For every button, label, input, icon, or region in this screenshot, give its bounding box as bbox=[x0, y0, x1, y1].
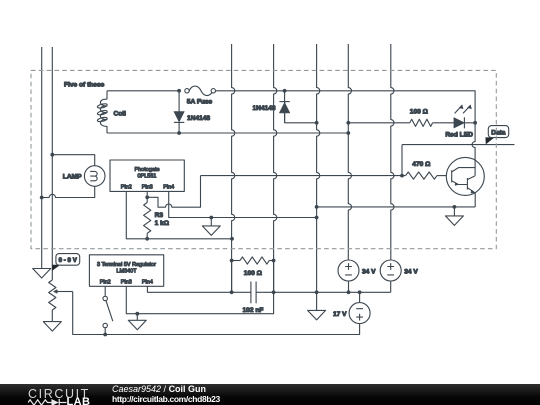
wire photogate Pin3 row to 470 ohm (y=175.6) bbox=[201, 175, 403, 177]
svg-text:Coil: Coil bbox=[114, 110, 127, 117]
switch SW1 bbox=[104, 286, 106, 296]
wire LED row left segment (D2 bottom to ground column) bbox=[285, 101, 317, 123]
dashed enclosure box bbox=[31, 70, 496, 248]
svg-text:Pin3: Pin3 bbox=[142, 185, 153, 191]
wire vertical column D (x=273.6) bbox=[274, 44, 277, 292]
svg-text:0PL551: 0PL551 bbox=[138, 174, 157, 180]
wire Data row (y=144.6) bbox=[402, 145, 515, 176]
wire vertical column A (x=41.7, lamp return / ground) bbox=[41, 47, 43, 269]
svg-text:34 V: 34 V bbox=[404, 268, 418, 275]
wire LED row (34V column to LED) bbox=[348, 122, 410, 124]
resistor 470 Ohm bbox=[402, 175, 406, 177]
ground (pot bottom) bbox=[43, 310, 61, 331]
svg-text:Data: Data bbox=[491, 129, 506, 136]
wire photogate Pin3 stub bbox=[146, 191, 148, 202]
fuse F1 5A bbox=[185, 89, 189, 93]
resistor 100 Ohm (LED) bbox=[410, 119, 433, 126]
diode D2 1N4148 bbox=[284, 91, 286, 123]
wire photogate Pin2 / R3 bottom row (y=238.8) bbox=[126, 191, 232, 238]
IC U1 Photogate 0PL551 bbox=[110, 160, 184, 191]
potentiometer R4 bbox=[49, 280, 56, 310]
svg-text:3 Terminal 5V Regulator: 3 Terminal 5V Regulator bbox=[97, 262, 156, 268]
flag Data bbox=[485, 137, 494, 144]
voltage source V1 34V bbox=[347, 259, 349, 261]
ground (emitter) bbox=[445, 207, 463, 226]
wire vertical column B (x=52.3, 0-9V supply to lamp and pot) bbox=[51, 47, 53, 280]
wire coil top / fuse row (y=90.8) bbox=[107, 90, 179, 92]
svg-text:5A Fuse: 5A Fuse bbox=[187, 98, 213, 105]
svg-text:Pin2: Pin2 bbox=[100, 279, 111, 285]
footer text bbox=[112, 385, 220, 405]
flag 0 - 9 V bbox=[52, 265, 61, 271]
svg-text:470 Ω: 470 Ω bbox=[412, 161, 431, 168]
svg-text:Pin3: Pin3 bbox=[121, 279, 132, 285]
wire lamp top (y=154.7) bbox=[52, 155, 94, 166]
wire photogate Pin3 jog bbox=[147, 176, 200, 208]
IC U2 LM340T regulator bbox=[89, 255, 163, 286]
svg-text:Pin2: Pin2 bbox=[121, 185, 132, 191]
wire vertical column C (x=231.6) bbox=[232, 44, 235, 292]
svg-text:LM340T: LM340T bbox=[116, 268, 137, 274]
ground (bottom row) bbox=[308, 292, 326, 320]
svg-text:1N4148: 1N4148 bbox=[187, 115, 210, 122]
inductor Coil bbox=[106, 91, 108, 99]
svg-text:1 kΩ: 1 kΩ bbox=[155, 220, 170, 227]
LED D3 Red bbox=[454, 118, 464, 128]
wire emitter ground row (y=206.9) bbox=[317, 206, 476, 208]
ground (lamp return) bbox=[33, 269, 51, 279]
resistor 100 Ohm (snubber) bbox=[232, 260, 240, 262]
svg-text:1N4148: 1N4148 bbox=[253, 105, 276, 112]
ground (photogate pin4) bbox=[202, 218, 220, 236]
wire vertical column F (x=348.3, 34V supply) bbox=[348, 44, 351, 260]
wire vertical column G (x=390.8, 34V supply 2) bbox=[391, 44, 394, 260]
footer bar bbox=[0, 384, 540, 405]
lamp LAMP bbox=[84, 166, 105, 187]
wire vertical column E (x=316.6, ground net) bbox=[317, 44, 320, 292]
svg-text:100 Ω: 100 Ω bbox=[410, 109, 429, 116]
wire regulator Pin4 to ground row (y=292.3) bbox=[147, 286, 246, 292]
svg-text:Pin4: Pin4 bbox=[142, 279, 153, 285]
svg-text:Pin4: Pin4 bbox=[163, 185, 174, 191]
wire regulator Pin3 ground jog (y=313.7) bbox=[126, 286, 273, 313]
wire bottom row pot wiper to 17V (y=334.5) bbox=[73, 292, 360, 335]
svg-text:Photogate: Photogate bbox=[134, 167, 159, 173]
ground (regulator pin3) bbox=[128, 314, 146, 330]
transistor Q1 (Darlington NPN) bbox=[446, 157, 484, 195]
wire coil bottom row (y=133) bbox=[107, 132, 348, 134]
svg-text:0 - 9 V: 0 - 9 V bbox=[59, 257, 78, 264]
capacitor C1 102nF bbox=[246, 291, 259, 293]
wire photogate Pin4 ground row (y=217.5) bbox=[169, 191, 317, 217]
CircuitLab logo bbox=[28, 386, 108, 405]
svg-text:102 nF: 102 nF bbox=[243, 307, 264, 314]
wire lamp bottom (y=197.5) hops column B bbox=[42, 186, 95, 197]
diode D1 1N4148 bbox=[178, 91, 180, 133]
junction dots bbox=[177, 89, 181, 93]
svg-text:Red LED: Red LED bbox=[445, 132, 473, 139]
resistor R3 1k bbox=[144, 203, 151, 234]
svg-text:34 V: 34 V bbox=[362, 268, 376, 275]
wire fuse row right of fuse to LED junction bbox=[215, 91, 475, 123]
wire ground row right of capacitor bbox=[259, 291, 391, 293]
svg-text:LAMP: LAMP bbox=[63, 174, 82, 181]
svg-text:Five of these: Five of these bbox=[64, 82, 105, 89]
svg-text:R3: R3 bbox=[155, 212, 164, 219]
svg-text:17 V: 17 V bbox=[333, 311, 347, 318]
voltage source V2 34V bbox=[380, 260, 401, 281]
svg-text:100 Ω: 100 Ω bbox=[244, 270, 263, 277]
voltage source V3 17V bbox=[359, 292, 361, 302]
